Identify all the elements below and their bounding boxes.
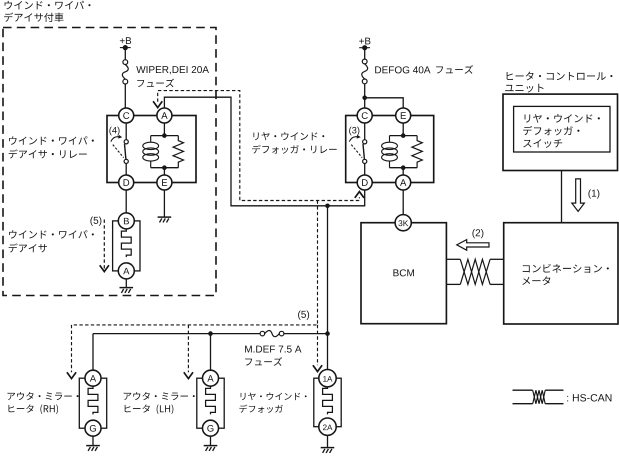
ground (LH heater) [204,446,218,451]
junction coil bottom [162,165,167,170]
wire coil bottom bar [390,167,418,169]
flow dashed line (wiper A to defog D) [158,91,360,201]
wire fuse to junction [364,84,366,116]
terminal 2A [319,418,336,435]
terminal A [85,370,101,386]
label: アウタ・ミラー・ヒータ (LH) [124,392,195,414]
label (4) [109,127,119,136]
wire coil bottom lead [402,168,404,175]
label: ウインド・ワイパ・デアイサ・リレー (wiper de-icer relay) [9,136,94,158]
wire +B to fuse [124,48,126,60]
terminal G [85,420,101,436]
wire +B to fuse (defog) [364,48,366,59]
label: M.DEF 7.5 A fuse [245,346,301,366]
junction fuse output [362,96,367,101]
relay: rear window defogger relay (box) [346,116,434,183]
wire fuse line right segment [284,333,328,335]
wire coil bottom lead [163,168,165,175]
relay coil suppression resistor [173,136,183,168]
flow dashed arrow into RH heater [67,325,76,379]
wire down to mirror heater RH [92,334,94,371]
label: DEFOG 40A fuse [375,65,473,74]
terminal C (defog relay) [357,108,372,123]
junction main feed branch [325,204,330,209]
component: rear window defogger switch box [514,106,610,152]
relay coil winding [382,136,398,168]
junction coil top [162,133,167,138]
option dashed enclosure (wiper de-icer equipped cars) [3,28,216,296]
terminal D (defog relay) [357,175,372,190]
label (3) [349,127,359,136]
label: リヤ・ウインド・デフォッガ・スイッチ (rear window defogger switch) [523,114,600,148]
flow arrow (1) hollow down [572,179,585,212]
switch motion arrow (4) [111,137,119,142]
module: combination meter box [504,223,618,324]
label: ヒータ・コントロール・ユニット (heater control unit) [505,72,612,93]
terminal A [118,263,134,279]
heating element resistor [323,386,333,414]
label: アウタ・ミラー・ヒータ (RH) [7,392,78,414]
wire heater control unit to combination meter [561,171,563,223]
switch actuation dashes (4) [113,145,124,158]
wire coil top bar [151,135,179,137]
ground (wiper de-icer) [120,288,134,293]
terminal E (wiper relay) [157,175,172,190]
element body [113,221,140,271]
wire coil top lead [163,123,165,136]
terminal B [118,213,134,229]
module: BCM box [361,223,446,324]
switch actuation dashes (3) [351,145,362,158]
relay switch contact (3) [363,123,367,175]
terminal C (wiper relay) [119,108,134,123]
wire coil top lead [402,123,404,136]
wire fuse line left segment [93,333,260,335]
wire rear defogger 2A to ground [327,435,329,447]
wire defog relay A to BCM 3K [402,190,404,215]
wire junction to relay E [365,98,404,108]
wire relay D to de-icer B [125,190,127,213]
ground (rear defogger) [321,448,335,453]
label: リヤ・ウインド・デフォッガ・リレー (rear window defogger relay) [252,132,337,154]
flow (1) label [588,189,599,198]
switch motion arrow (3) [349,137,357,142]
wire relay E to ground [163,190,165,217]
fuse DEFOG 40A [362,59,367,64]
wire down to mirror heater LH [210,334,212,371]
element body [197,378,224,428]
flow (5) label at de-icer [90,217,101,226]
flow arrow into wiper A [153,101,162,107]
flow arrow into defog D [355,192,364,198]
wire coil bottom bar [151,167,179,169]
module: heater control unit box [503,94,618,170]
HS-CAN twisted pair bus BCM to meter [446,259,503,284]
relay coil winding [143,136,159,168]
wire down to rear defogger 1A [327,334,329,370]
terminal G [203,420,219,436]
label: ウインド・ワイパ・デアイサ付車 (with window wiper de-icer) [4,1,90,22]
element body [79,378,106,428]
wire main feed down to M.DEF fuse line [327,206,329,334]
relay switch contact (4) [124,123,128,175]
fuse M.DEF 7.5 A [260,331,265,336]
flow dashed arrow (5) into de-icer [100,220,109,272]
node +B (defog) [359,38,370,51]
relay coil suppression resistor [412,136,422,168]
relay: wiper de-icer relay (box) [107,116,196,183]
junction LH heater tap [208,331,213,336]
junction coil top [401,133,406,138]
terminal A (wiper relay) [157,108,172,123]
ground (wiper relay E) [158,217,172,222]
label: ウインド・ワイパ・デアイサ (wiper de-icer) [9,230,94,252]
label: コンビネーション・メータ (combination meter) [522,264,609,285]
label: BCM [393,269,414,276]
heating element resistor [206,386,216,414]
wire LH heater G to ground [210,436,212,445]
legend: HS-CAN twisted pair symbol [513,390,564,404]
wire de-icer A to ground [125,279,127,288]
wire coil top bar [390,135,418,137]
node +B (wiper) [120,37,131,50]
terminal 1A [319,370,336,387]
label: WIPER,DEI 20A fuse [136,66,209,87]
junction coil bottom [401,165,406,170]
terminal A (defog relay) [396,175,411,190]
ground (RH heater) [86,446,100,451]
terminal 3K (BCM) [395,215,411,231]
junction M.DEF line [325,331,330,336]
flow dashed arrow into rear defogger [313,325,322,372]
heating element resistor [121,229,131,257]
fuse WIPER,DEI 20A [123,60,128,65]
heating element resistor [88,386,98,414]
flow dashed branch down to heated elements [72,201,318,325]
flow (2) label [472,229,483,238]
terminal E (defog relay) [396,108,411,123]
terminal A [203,370,219,386]
flow (5) label bottom [298,311,309,320]
wire fuse to relay C [124,84,126,108]
wire RH heater G to ground [92,436,94,445]
legend label: HS-CAN [567,394,611,401]
wire wiper relay A to defogger relay D [164,97,364,206]
label: リヤ・ウインド・デフォッガ (rear window defogger) [239,393,306,413]
element body [314,378,341,427]
flow dashed arrow into LH heater [184,325,193,379]
terminal D (wiper relay) [119,175,134,190]
flow arrow (2) hollow left [457,240,489,251]
